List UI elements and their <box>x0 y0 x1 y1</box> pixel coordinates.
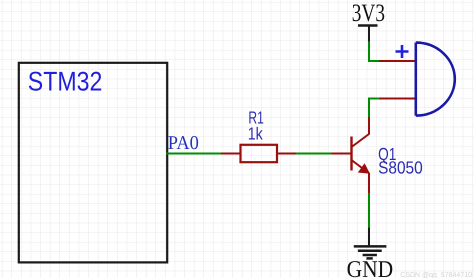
resistor R1 pin 1 lead <box>221 153 240 155</box>
svg-text:PA0: PA0 <box>168 133 199 154</box>
Q1 emitter arrowhead <box>358 163 370 174</box>
svg-text:3V3: 3V3 <box>352 0 385 27</box>
Q1 emitter diagonal <box>352 160 367 171</box>
resistor R1 pin 2 lead <box>278 153 297 155</box>
power port 3V3 stem <box>368 26 370 42</box>
wire 3V3 to buzzer + pin <box>369 42 379 61</box>
component U1 STM32 box <box>19 63 167 263</box>
buzzer + pin lead <box>379 60 416 62</box>
svg-text:STM32: STM32 <box>28 67 103 97</box>
Q1 base bar <box>350 137 352 171</box>
Q1 base lead <box>332 153 352 155</box>
buzzer plus polarity mark <box>396 45 409 58</box>
ground stem <box>368 193 370 227</box>
ground symbol <box>354 246 387 258</box>
svg-text:1k: 1k <box>248 123 263 143</box>
svg-text:GND: GND <box>347 257 394 278</box>
Q1 collector diagonal <box>352 134 370 147</box>
wire PA0 to R1 <box>166 153 221 155</box>
svg-text:CSDN @qq_57844710: CSDN @qq_57844710 <box>400 271 472 278</box>
power port 3V3 bar <box>358 24 378 27</box>
wire R1 to Q1 base <box>296 153 332 155</box>
wire buzzer - pin to Q1 collector <box>369 99 379 118</box>
svg-text:S8050: S8050 <box>378 158 423 178</box>
transistor Q1 <box>332 117 371 193</box>
buzzer - pin lead <box>379 98 416 100</box>
resistor R1 body <box>241 145 278 162</box>
Q1 emitter vertical lead <box>368 173 370 194</box>
Q1 collector vertical lead <box>368 117 370 135</box>
buzzer LS1 body <box>416 43 455 116</box>
ground lead black <box>368 227 370 246</box>
